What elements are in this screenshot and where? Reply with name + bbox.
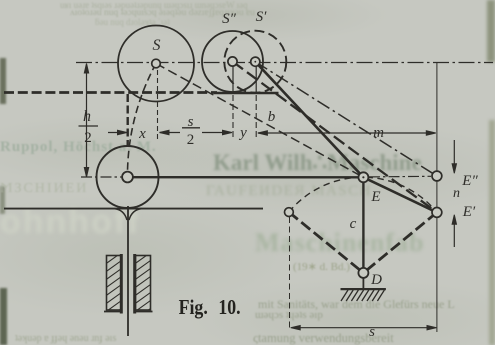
bar h/2 (79, 125, 99, 127)
platform under disks (214, 92, 279, 95)
rod axis dashed vertical (126, 94, 128, 146)
left boundary vertical at L (289, 217, 291, 331)
disk S1 dashed (224, 31, 286, 93)
line S to E dashed (156, 64, 363, 178)
dark left margin blobs (0, 58, 6, 104)
pin E1 (432, 208, 442, 218)
disk C2 lower roller (97, 146, 159, 208)
fraction bars (79, 126, 201, 128)
svg-text:h: h (83, 108, 91, 125)
svg-text:m: m (373, 125, 384, 141)
svg-text:S: S (153, 37, 161, 54)
dimension s (291, 326, 437, 330)
svg-text:y: y (238, 125, 247, 141)
svg-text:E: E (370, 189, 380, 205)
svg-text:S′: S′ (256, 9, 268, 25)
hatching right block (129, 250, 154, 324)
svg-text:E″: E″ (461, 173, 478, 189)
rod b S1 to E solid crank (255, 62, 363, 178)
centerline E to E2 (369, 175, 431, 178)
pin S1 (251, 57, 260, 66)
pin L (285, 208, 294, 217)
ground slide line (4, 208, 263, 210)
arc L through E to E1 (289, 177, 437, 212)
slider rod (127, 206, 129, 336)
disk S2 solid (202, 31, 263, 92)
bleed-through text back side (60, 0, 248, 10)
ground line at D (341, 288, 386, 290)
svg-text:s: s (369, 324, 375, 340)
svg-text:x: x (138, 126, 146, 142)
svg-text:D: D (370, 272, 382, 288)
guide block right (134, 254, 153, 314)
dimension h/2 (84, 64, 88, 178)
dimension x s/2 y m row (108, 130, 436, 135)
rod S2 to E1 thick dashed (233, 62, 437, 213)
pin C2 (122, 172, 133, 183)
svg-text:n: n (453, 186, 460, 201)
pin D (358, 268, 368, 278)
pin S2 (228, 57, 237, 66)
arc path S to C2 (128, 64, 157, 173)
centerline axis (76, 62, 493, 64)
funnel fillet right (129, 209, 142, 220)
centerline stub left of C2 (81, 176, 122, 178)
line S1 to E2 dash-dot (255, 62, 437, 176)
bar s/2 (182, 127, 200, 129)
link rod C2 to E (128, 176, 364, 179)
stem D to ground (362, 278, 364, 289)
dimension n arrows (452, 140, 456, 247)
link E1 to D dashed (363, 212, 437, 273)
link c E to D (362, 177, 364, 273)
svg-text:S″: S″ (222, 11, 237, 27)
funnel fillet left (114, 209, 127, 220)
svg-text:E′: E′ (462, 204, 476, 220)
pin E2 (432, 171, 442, 181)
pin E (358, 172, 368, 182)
heavy dashed guide line (4, 91, 217, 94)
right boundary vertical (436, 63, 438, 333)
tick below S (157, 70, 159, 141)
pin S (152, 59, 161, 68)
svg-text:2: 2 (187, 132, 195, 148)
hatching left block (100, 250, 125, 324)
svg-text:b: b (268, 109, 276, 125)
guide block left (104, 254, 123, 314)
svg-text:2: 2 (84, 130, 92, 146)
link L to D dashed (289, 212, 364, 273)
svg-text:Fig.: Fig. (179, 295, 208, 319)
svg-text:c: c (350, 216, 357, 232)
tick below S2 (232, 66, 234, 93)
svg-text:10.: 10. (218, 295, 240, 319)
disk S (118, 26, 194, 102)
ground hatching at D (341, 290, 384, 301)
link E to E1 (363, 177, 437, 212)
tick below S1 (255, 66, 257, 93)
